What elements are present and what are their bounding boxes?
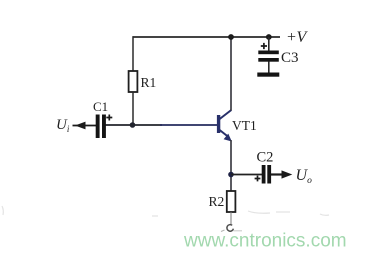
- wire C3 top lead: [268, 37, 270, 51]
- node C3 junction: [266, 34, 272, 40]
- capacitor C3: [258, 51, 279, 55]
- wire C2 to arrow: [271, 173, 283, 175]
- capacitor C2: [262, 165, 266, 184]
- transistor VT1: [217, 110, 232, 142]
- node base junction: [130, 122, 136, 128]
- svg-text:C2: C2: [257, 150, 274, 166]
- wire emitter vertical: [230, 140, 232, 191]
- input arrow: [73, 125, 97, 127]
- output arrow: [282, 170, 293, 178]
- svg-text:Ui: Ui: [56, 117, 70, 134]
- wire R1 bottom lead: [132, 92, 134, 125]
- wire R1 top lead: [132, 36, 134, 71]
- wire junction to C2: [231, 174, 262, 176]
- svg-text:+V: +V: [287, 29, 309, 46]
- svg-text:www.cntronics.com: www.cntronics.com: [183, 231, 347, 252]
- svg-text:C3: C3: [281, 50, 299, 66]
- node emitter junction: [228, 172, 234, 178]
- svg-text:R1: R1: [141, 75, 157, 90]
- node collector junction: [228, 34, 234, 40]
- capacitor C1: [96, 115, 100, 139]
- resistor R1: [129, 71, 138, 92]
- svg-text:Uo: Uo: [296, 167, 313, 186]
- C2 plus sign: [255, 176, 261, 182]
- wire C3 bottom lead: [268, 62, 270, 74]
- svg-text:VT1: VT1: [232, 118, 257, 133]
- wire C1 to junction: [105, 124, 162, 126]
- svg-text:R2: R2: [209, 194, 225, 209]
- wire R2 bottom lead: [230, 212, 232, 225]
- C3 ground bar: [257, 73, 279, 77]
- wire top supply rail: [133, 36, 281, 38]
- C3 plus sign: [261, 43, 267, 49]
- wire collector vertical: [230, 37, 232, 111]
- faint print artifacts: [2, 206, 329, 216]
- wire junction to base: [160, 124, 218, 126]
- ground: [221, 225, 242, 232]
- resistor R2: [227, 191, 236, 212]
- svg-text:C1: C1: [93, 99, 108, 114]
- C1 plus sign: [106, 115, 112, 121]
